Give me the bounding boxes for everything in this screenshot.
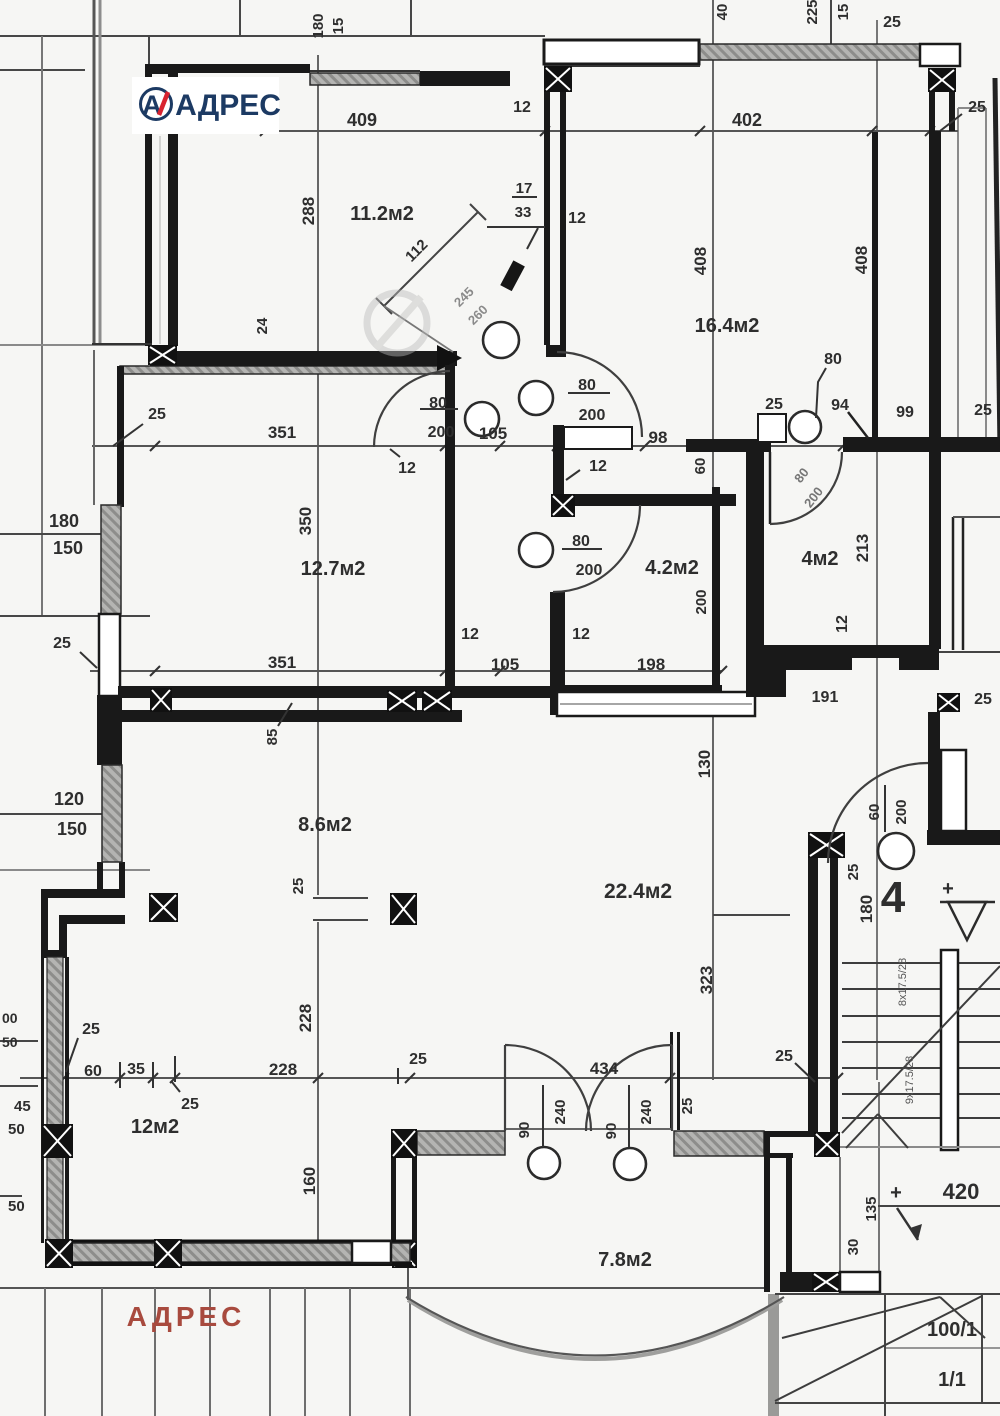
- svg-text:11.2м2: 11.2м2: [350, 203, 414, 225]
- svg-text:7.8м2: 7.8м2: [598, 1249, 652, 1271]
- svg-text:200: 200: [576, 562, 603, 579]
- svg-text:25: 25: [53, 635, 71, 652]
- svg-text:12.7м2: 12.7м2: [301, 558, 366, 580]
- svg-text:22.4м2: 22.4м2: [604, 880, 672, 903]
- svg-text:323: 323: [697, 966, 716, 994]
- svg-text:105: 105: [479, 424, 507, 443]
- svg-text:15: 15: [835, 4, 852, 21]
- svg-text:40: 40: [714, 4, 731, 21]
- svg-text:105: 105: [491, 655, 519, 674]
- svg-text:180: 180: [310, 13, 327, 38]
- svg-text:33: 33: [515, 204, 532, 221]
- svg-text:12: 12: [572, 626, 590, 643]
- svg-text:17: 17: [516, 180, 533, 197]
- svg-text:100/1: 100/1: [927, 1319, 977, 1341]
- svg-text:228: 228: [269, 1060, 297, 1079]
- svg-text:409: 409: [347, 110, 377, 130]
- svg-text:25: 25: [181, 1096, 199, 1113]
- svg-text:12: 12: [834, 615, 851, 633]
- svg-text:94: 94: [831, 397, 849, 414]
- svg-text:8.6м2: 8.6м2: [298, 814, 352, 836]
- svg-text:25: 25: [409, 1051, 427, 1068]
- svg-text:420: 420: [943, 1179, 980, 1204]
- svg-text:+: +: [942, 878, 954, 900]
- svg-text:225: 225: [804, 0, 821, 25]
- svg-text:160: 160: [300, 1167, 319, 1195]
- svg-text:50: 50: [2, 1034, 18, 1050]
- svg-text:АДРЕС: АДРЕС: [127, 1301, 246, 1332]
- svg-text:150: 150: [53, 538, 83, 558]
- svg-text:4м2: 4м2: [801, 548, 838, 570]
- svg-text:228: 228: [296, 1004, 315, 1032]
- svg-text:200: 200: [893, 799, 910, 824]
- svg-text:25: 25: [968, 99, 986, 116]
- svg-text:408: 408: [852, 246, 871, 274]
- svg-text:1/1: 1/1: [938, 1369, 966, 1391]
- svg-text:8x17.5/28: 8x17.5/28: [897, 958, 909, 1006]
- svg-text:12: 12: [589, 458, 607, 475]
- svg-text:45: 45: [14, 1098, 31, 1115]
- svg-text:90: 90: [603, 1123, 620, 1140]
- svg-text:130: 130: [695, 750, 714, 778]
- svg-text:434: 434: [590, 1059, 619, 1078]
- svg-text:135: 135: [863, 1196, 880, 1221]
- svg-text:98: 98: [649, 428, 668, 447]
- svg-text:25: 25: [82, 1021, 100, 1038]
- svg-text:25: 25: [974, 691, 992, 708]
- svg-text:240: 240: [638, 1099, 655, 1124]
- svg-text:50: 50: [8, 1121, 25, 1138]
- svg-text:180: 180: [49, 511, 79, 531]
- svg-text:85: 85: [264, 729, 281, 746]
- svg-text:12: 12: [513, 99, 531, 116]
- svg-text:240: 240: [552, 1099, 569, 1124]
- svg-text:АДРЕС: АДРЕС: [175, 89, 281, 122]
- svg-text:25: 25: [765, 396, 783, 413]
- svg-text:60: 60: [84, 1063, 102, 1080]
- svg-text:120: 120: [54, 789, 84, 809]
- svg-text:99: 99: [896, 404, 914, 421]
- svg-text:А: А: [142, 90, 162, 120]
- svg-text:213: 213: [853, 534, 872, 562]
- svg-text:12: 12: [461, 626, 479, 643]
- svg-text:50: 50: [8, 1198, 25, 1215]
- svg-text:25: 25: [775, 1048, 793, 1065]
- svg-text:00: 00: [2, 1010, 18, 1026]
- svg-text:80: 80: [824, 351, 842, 368]
- svg-text:12: 12: [398, 460, 416, 477]
- svg-text:351: 351: [268, 423, 296, 442]
- svg-text:180: 180: [857, 895, 876, 923]
- svg-text:35: 35: [127, 1061, 145, 1078]
- svg-text:200: 200: [693, 589, 710, 614]
- svg-text:4.2м2: 4.2м2: [645, 557, 699, 579]
- svg-text:25: 25: [845, 864, 862, 881]
- svg-text:60: 60: [866, 804, 883, 821]
- svg-text:288: 288: [299, 197, 318, 225]
- svg-text:350: 350: [296, 507, 315, 535]
- svg-text:12м2: 12м2: [131, 1116, 179, 1138]
- svg-text:402: 402: [732, 110, 762, 130]
- svg-text:351: 351: [268, 653, 296, 672]
- svg-text:200: 200: [428, 424, 455, 441]
- svg-text:80: 80: [572, 533, 590, 550]
- svg-text:25: 25: [148, 406, 166, 423]
- svg-text:12: 12: [568, 210, 586, 227]
- svg-text:25: 25: [974, 402, 992, 419]
- svg-text:25: 25: [883, 14, 901, 31]
- svg-text:16.4м2: 16.4м2: [695, 315, 760, 337]
- svg-text:24: 24: [254, 317, 271, 334]
- svg-text:80: 80: [578, 377, 596, 394]
- svg-text:9x17.5/28: 9x17.5/28: [904, 1056, 916, 1104]
- svg-text:200: 200: [579, 407, 606, 424]
- svg-text:150: 150: [57, 819, 87, 839]
- svg-text:+: +: [890, 1182, 902, 1204]
- svg-text:4: 4: [881, 873, 906, 922]
- svg-text:198: 198: [637, 655, 665, 674]
- svg-text:90: 90: [516, 1122, 533, 1139]
- svg-text:191: 191: [812, 689, 839, 706]
- svg-text:408: 408: [691, 247, 710, 275]
- svg-text:25: 25: [290, 878, 307, 895]
- svg-text:30: 30: [845, 1239, 862, 1256]
- svg-text:60: 60: [692, 458, 709, 475]
- svg-text:15: 15: [330, 18, 347, 35]
- svg-text:25: 25: [679, 1098, 696, 1115]
